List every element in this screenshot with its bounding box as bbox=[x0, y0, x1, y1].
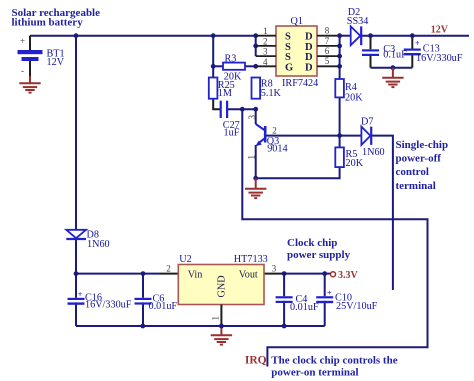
wire D7 cathode to single-chip power-off terminal bbox=[371, 136, 393, 290]
svg-text:3: 3 bbox=[263, 47, 268, 57]
wire Vin rail bbox=[76, 273, 160, 275]
wire C4 top stub bbox=[283, 274, 285, 297]
junction 12V rail / C13 bbox=[410, 33, 415, 38]
wire left vertical from top rail to D8 anode bbox=[75, 36, 77, 230]
svg-text:Vin: Vin bbox=[188, 269, 203, 280]
capacitor C3 plates bbox=[362, 49, 379, 51]
wire Q3 emitter down bbox=[255, 145, 257, 178]
svg-text:Vout: Vout bbox=[239, 269, 258, 280]
svg-text:7: 7 bbox=[325, 36, 330, 46]
capacitor C16 polarized plates bbox=[68, 298, 85, 300]
svg-text:4: 4 bbox=[263, 57, 268, 67]
svg-text:2: 2 bbox=[263, 36, 268, 46]
svg-text:terminal: terminal bbox=[396, 180, 436, 192]
Q1 pin names S S S G / D D D D bbox=[285, 32, 313, 74]
svg-text:power-off: power-off bbox=[396, 153, 442, 165]
mosfet U-body Q1 IRF7424 box bbox=[276, 26, 317, 76]
battery BT1 plates bbox=[18, 50, 43, 54]
svg-text:1uF: 1uF bbox=[224, 127, 240, 138]
svg-text:control: control bbox=[396, 166, 429, 178]
junction gate node / R8 top bbox=[253, 64, 258, 69]
terminal 3.3V circle bbox=[331, 272, 336, 277]
ground Q3 emitter bbox=[245, 189, 266, 198]
junction Vin rail / D8 branch bbox=[74, 271, 79, 276]
resistor R3 bbox=[223, 63, 245, 70]
wire D8 cathode down to Vin rail bbox=[75, 240, 77, 274]
junction pin5 / D-bus bbox=[337, 64, 342, 69]
wire U2 Vin pin bbox=[160, 273, 178, 275]
wire drop from top rail to R3/R25 node bbox=[212, 36, 214, 67]
wire 12V rail from D2 cathode bbox=[361, 35, 469, 37]
wire Q1 pin8 to D2 anode bbox=[340, 35, 351, 37]
wire C6 top stub bbox=[142, 274, 144, 298]
wire C27 right plate to Q3 collector node bbox=[228, 108, 256, 110]
capacitor C27 plates bbox=[220, 101, 222, 118]
battery BT1 positive pin bbox=[29, 36, 31, 50]
wire R5 top stub bbox=[339, 136, 341, 148]
junction top rail / pin1 bus bbox=[253, 33, 258, 38]
junction top rail / left vertical bbox=[74, 33, 79, 38]
wire C10 top stub bbox=[324, 274, 326, 297]
junction 12V rail / C3 bbox=[368, 33, 373, 38]
svg-text:0.01uF: 0.01uF bbox=[290, 302, 319, 313]
svg-text:3: 3 bbox=[247, 115, 257, 120]
svg-text:lithium battery: lithium battery bbox=[12, 17, 84, 29]
regulator U2 HT7133 box bbox=[178, 265, 264, 305]
svg-text:5.1K: 5.1K bbox=[261, 88, 282, 99]
wire IRQ feedback loop bbox=[242, 109, 427, 366]
svg-text:12V: 12V bbox=[431, 25, 449, 36]
svg-text:16V/330uF: 16V/330uF bbox=[416, 53, 463, 64]
wire emitter rail to R5 bottom bbox=[256, 167, 340, 178]
svg-text:+: + bbox=[78, 290, 83, 299]
svg-text:G: G bbox=[285, 62, 293, 73]
diode D2 SS34 symbol bbox=[351, 26, 362, 45]
svg-text:GND: GND bbox=[217, 275, 228, 297]
svg-text:U2: U2 bbox=[179, 254, 191, 265]
resistor R25 bbox=[209, 78, 218, 99]
svg-text:3.3V: 3.3V bbox=[338, 270, 359, 281]
wire C13 top stub bbox=[411, 36, 413, 49]
wire bottom ground rail bbox=[76, 325, 325, 327]
svg-text:0.1uF: 0.1uF bbox=[383, 50, 407, 61]
svg-text:Clock chip: Clock chip bbox=[287, 237, 337, 249]
svg-text:power supply: power supply bbox=[287, 249, 351, 261]
svg-text:0.01uF: 0.01uF bbox=[149, 301, 178, 312]
junction ground rail C3/C13 bbox=[391, 65, 396, 70]
junction pin2 on bus bbox=[253, 44, 258, 49]
wire C3 bottom stub bbox=[370, 55, 372, 68]
U2 GND pin stem bbox=[220, 305, 222, 327]
ground U2 stem bbox=[220, 326, 222, 335]
svg-text:8: 8 bbox=[325, 26, 330, 36]
junction Vout rail / C10 bbox=[322, 271, 327, 276]
wire Vout rail to 3.3V terminal bbox=[282, 273, 331, 275]
svg-text:R4: R4 bbox=[345, 82, 357, 93]
wire Q3 base to D7 anode bbox=[266, 135, 361, 137]
ground Q3 emitter stem bbox=[255, 178, 257, 188]
svg-text:HT7133: HT7133 bbox=[234, 254, 268, 265]
svg-text:6: 6 bbox=[325, 46, 330, 56]
junction pin6 / D-bus bbox=[337, 54, 342, 59]
wire C3/C13 ground rail bbox=[371, 67, 413, 69]
svg-text:25V/10uF: 25V/10uF bbox=[336, 301, 378, 312]
svg-text:2: 2 bbox=[272, 125, 277, 135]
junction R8 bottom / Q3 collector bbox=[253, 107, 258, 112]
svg-text:+: + bbox=[415, 39, 420, 48]
svg-text:2: 2 bbox=[166, 263, 171, 273]
svg-text:Single-chip: Single-chip bbox=[396, 139, 449, 151]
svg-text:9014: 9014 bbox=[267, 144, 287, 155]
resistor R8 bbox=[252, 78, 261, 99]
battery BT1 negative pin bbox=[29, 61, 31, 76]
Q1 pin 4 bbox=[256, 65, 276, 67]
Q1 pin 3 bbox=[256, 55, 276, 57]
junction emitter / ground rail bbox=[253, 176, 258, 181]
junction pin7 / D-bus bbox=[337, 44, 342, 49]
svg-text:20K: 20K bbox=[345, 93, 363, 104]
capacitor C10 polarized plates bbox=[316, 296, 333, 298]
wire R25 top stub bbox=[212, 65, 214, 77]
svg-text:R3: R3 bbox=[225, 53, 237, 64]
svg-text:-: - bbox=[21, 66, 24, 76]
wire R3 left stub bbox=[213, 65, 223, 67]
svg-text:1N60: 1N60 bbox=[87, 239, 110, 250]
svg-text:D: D bbox=[305, 62, 313, 73]
svg-text:1: 1 bbox=[211, 316, 221, 321]
svg-text:16V/330uF: 16V/330uF bbox=[85, 300, 132, 311]
svg-text:Q1: Q1 bbox=[291, 16, 303, 27]
junction R3 left / R25 top bbox=[211, 64, 216, 69]
resistor R4 bbox=[335, 79, 344, 97]
svg-text:+: + bbox=[20, 36, 25, 46]
wire R25 bottom to C27 row bbox=[213, 99, 220, 110]
svg-text:1M: 1M bbox=[218, 88, 232, 99]
svg-text:1N60: 1N60 bbox=[362, 147, 385, 158]
wire C6 bottom stub bbox=[142, 302, 144, 326]
resistor R5 bbox=[335, 147, 344, 167]
junction bottom rail / U2 GND bbox=[219, 324, 224, 329]
ground C3/C13 bbox=[382, 78, 403, 87]
wire U2 Vout pin bbox=[264, 273, 282, 275]
svg-text:The clock chip controls the: The clock chip controls the bbox=[271, 354, 397, 366]
junction pin8 / D-bus bbox=[337, 33, 342, 38]
svg-text:5: 5 bbox=[325, 56, 330, 66]
Q1 pin 2 bbox=[256, 45, 276, 47]
junction top rail / R3-R25 drop bbox=[211, 33, 216, 38]
svg-text:IRF7424: IRF7424 bbox=[282, 78, 318, 89]
Q1 pin 5 bbox=[317, 65, 340, 67]
junction Vout rail / C4 bbox=[282, 271, 287, 276]
ground U2 bbox=[211, 335, 232, 344]
diode D8 1N60 symbol bbox=[66, 230, 86, 239]
svg-text:power-on terminal: power-on terminal bbox=[271, 367, 358, 379]
svg-text:+: + bbox=[327, 288, 332, 297]
junction base node R4/R5/D7 bbox=[337, 133, 342, 138]
wire C13 bottom stub bbox=[411, 54, 413, 68]
wire C10 bottom stub bbox=[324, 301, 326, 326]
capacitor C13 polarized plates bbox=[404, 49, 421, 51]
capacitor C4 plates bbox=[276, 296, 293, 298]
Q1 pin 8 bbox=[317, 35, 340, 37]
junction Vin rail / C6 bbox=[141, 271, 146, 276]
wire C16 bottom stub to ground rail bbox=[75, 302, 77, 326]
ground battery bbox=[19, 83, 40, 92]
Q1 pin 7 bbox=[317, 45, 340, 47]
ground battery stem bbox=[29, 76, 31, 83]
junction bottom rail / C4 bbox=[282, 324, 287, 329]
wire battery positive to main 12V-side rail bbox=[30, 35, 256, 37]
wire C16 top stub bbox=[75, 274, 77, 298]
junction bottom rail / C6 bbox=[140, 324, 145, 329]
capacitor C6 plates bbox=[135, 298, 152, 300]
wire C4 bottom stub bbox=[283, 301, 285, 326]
svg-text:1: 1 bbox=[263, 26, 268, 36]
wire R4 bottom to base node bbox=[339, 97, 341, 135]
Q1 pin 6 bbox=[317, 55, 340, 57]
wire C3 top stub bbox=[370, 36, 372, 50]
ground C3/C13 stem bbox=[392, 68, 394, 78]
svg-text:IRQ: IRQ bbox=[245, 355, 267, 367]
svg-text:D7: D7 bbox=[361, 117, 373, 128]
wire R3 right end to Q1 gate node bbox=[245, 65, 256, 67]
svg-text:12V: 12V bbox=[47, 57, 65, 68]
svg-text:3: 3 bbox=[272, 263, 277, 273]
svg-text:1: 1 bbox=[247, 155, 257, 160]
Q1 pin 1 bbox=[256, 35, 276, 37]
wire Q3 collector up to R8/C27 node bbox=[255, 109, 257, 124]
transistor Q3 9014 symbol bbox=[255, 124, 266, 146]
svg-text:20K: 20K bbox=[346, 158, 364, 169]
junction C27 node / IRQ loop bbox=[240, 107, 245, 112]
svg-text:SS34: SS34 bbox=[347, 16, 369, 27]
wire bus joining Q1 pins 8-5 down to R4 bbox=[339, 36, 341, 79]
wire bus joining Q1 pins 1-3 bbox=[255, 36, 257, 56]
diode D7 1N60 symbol bbox=[361, 127, 371, 145]
